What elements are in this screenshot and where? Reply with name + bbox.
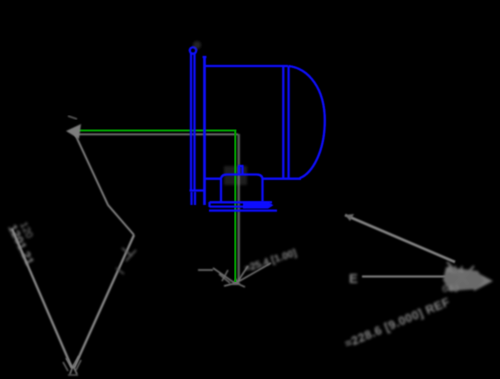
wire: flange stub right (194, 192, 196, 205)
wire: flange stub left (190, 192, 192, 205)
wire: body left wall (203, 57, 206, 205)
wire: nub left line (238, 166, 240, 175)
wire: horizontal annotation line (362, 276, 466, 278)
wire: seam line 2 (287, 66, 289, 179)
node A: left arrowhead on centerline (66, 124, 81, 139)
wire: gray dimension line under horizontal centerline (76, 133, 238, 135)
node I: vertical centerline (green) (234, 130, 236, 283)
svg-text:E: E (349, 271, 358, 286)
node L: base solid block with arrow tip (243, 202, 274, 209)
node F: right cluster with arrow and text (349, 262, 493, 295)
wire: V right arm (74, 235, 134, 368)
node J2: faint smudge above eyelet (193, 41, 201, 49)
node I2: small tick above left arrow (68, 116, 77, 119)
wire: base bottom line (210, 205, 247, 207)
svg-text:640: 640 (442, 284, 459, 295)
wire: V left arm (12, 229, 72, 368)
node H: horizontal centerline (green) (73, 130, 236, 132)
node E: rotated text near bottom-center leader (244, 248, 299, 275)
wire: right diagonal leader (345, 215, 455, 262)
wire: nub right line (241, 166, 243, 175)
wire: dome arc (289, 66, 325, 178)
node C2: small marks near V right arm top (116, 248, 136, 274)
node G: rotated dimension text bottom-right (343, 295, 452, 351)
wire: flange left line (190, 53, 192, 191)
wire: gray dimension extension line beside vertical centerline (237, 134, 239, 280)
node K: bell yoke outline (221, 175, 263, 203)
wire: seam line 1 (282, 66, 284, 179)
wire: base lower line (209, 209, 277, 211)
wire: body bottom edge left segment (205, 178, 222, 180)
wire: flange right line (193, 54, 195, 191)
wire: nub top cap (238, 165, 244, 167)
wire: base left cap (208, 202, 210, 207)
wire: body bottom edge right segment (263, 178, 302, 180)
node D: bottom-center arrow cluster at end of vertical centerline (198, 263, 271, 287)
node M: small mark at leader start (345, 214, 354, 221)
node B: V-tip marks (63, 356, 81, 375)
node N: faint smudge behind nub and vertical centerline (224, 166, 247, 185)
node C: rotated dimension text along V left arm (5, 220, 37, 267)
node J: eyelet circle on flange top (190, 47, 196, 53)
wire: wall top cap (203, 56, 207, 58)
wire: base top line (210, 201, 273, 203)
wire: leader from left arrow down-right (75, 134, 134, 235)
wire: flange bottom bridge (190, 189, 205, 191)
wire: body top edge (205, 65, 289, 67)
